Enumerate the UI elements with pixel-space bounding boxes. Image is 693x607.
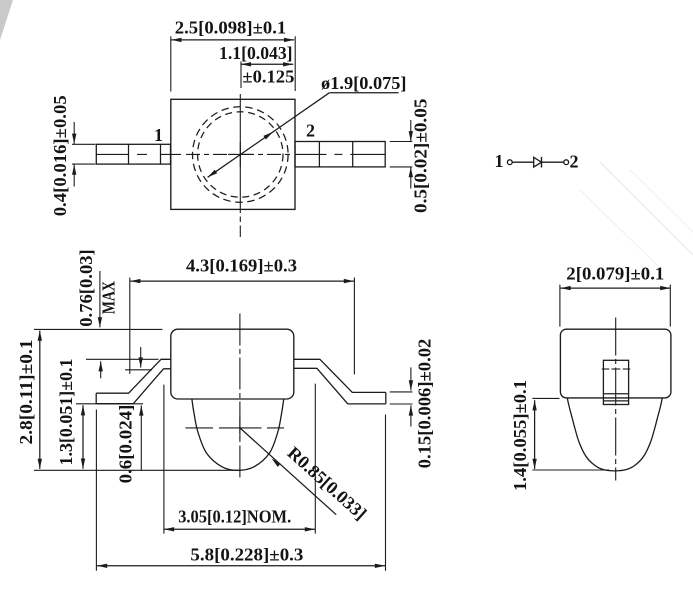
lead shoulder top extension line xyxy=(86,358,159,360)
end view: lens dome xyxy=(567,398,662,471)
side view: package body xyxy=(171,329,294,399)
svg-text:2[0.079]±0.1: 2[0.079]±0.1 xyxy=(566,264,664,284)
end view: lead slug rectangle xyxy=(603,360,628,404)
lead shoulder bottom extension line and arrow xyxy=(125,369,152,371)
svg-text:ø1.9[0.075]: ø1.9[0.075] xyxy=(321,73,407,93)
dimension 0.4 arrows xyxy=(73,122,75,144)
svg-text:1: 1 xyxy=(495,151,504,171)
dimension 0.5 arrows xyxy=(410,120,412,141)
svg-text:1.3[0.051]±0.1: 1.3[0.051]±0.1 xyxy=(56,359,76,466)
top view: lead 1 (left) outline xyxy=(96,144,170,164)
end view: package body xyxy=(560,329,671,398)
dimension 0.15 extension lines xyxy=(390,391,413,393)
svg-text:3.05[0.12]NOM.: 3.05[0.12]NOM. xyxy=(178,507,291,527)
svg-text:MAX: MAX xyxy=(98,281,118,314)
side view: lead 2 end cap xyxy=(385,392,387,404)
end view: lead slug inner lines xyxy=(603,393,628,395)
diode symbol: terminal 2 circle xyxy=(564,160,569,165)
side view: lead 1 (left gull-wing) top edge xyxy=(96,359,171,393)
side view: lead 1 end cap xyxy=(95,393,97,404)
dimension 0.5 extension lines xyxy=(390,141,413,143)
side view: lens dome xyxy=(192,399,284,470)
svg-text:±0.125: ±0.125 xyxy=(242,66,294,86)
scan artifact top-left corner xyxy=(0,0,13,40)
dimension 0.76 arrows xyxy=(99,271,101,327)
lens bottom extension line xyxy=(34,469,240,471)
diode symbol: terminal 1 circle xyxy=(507,160,512,165)
dimension 1.1 line with arrows xyxy=(241,63,293,65)
dimension 3.05 extension lines xyxy=(163,385,165,534)
svg-text:1.1[0.043]: 1.1[0.043] xyxy=(219,43,293,63)
dimension 5.8 extension lines xyxy=(95,410,97,571)
svg-text:2: 2 xyxy=(570,152,579,172)
top view: horizontal centerline xyxy=(96,153,128,155)
svg-text:4.3[0.169]±0.3: 4.3[0.169]±0.3 xyxy=(186,255,297,275)
diameter 1.9 leader arrows xyxy=(208,170,218,178)
body top extension line xyxy=(34,328,162,330)
diode symbol: triangle xyxy=(534,157,542,167)
dimension 0.6 line with arrow xyxy=(140,405,142,470)
svg-text:0.6[0.024]: 0.6[0.024] xyxy=(115,405,135,484)
top view: lead 2 bend lines xyxy=(318,142,320,167)
dimension 4.3 extension lines xyxy=(129,278,131,374)
top view: vertical centerline xyxy=(239,94,241,213)
diode symbol: cathode bar xyxy=(541,157,543,168)
svg-text:0.4[0.016]±0.05: 0.4[0.016]±0.05 xyxy=(50,95,70,216)
svg-text:2: 2 xyxy=(306,121,315,141)
svg-text:2.8[0.11]±0.1: 2.8[0.11]±0.1 xyxy=(16,340,36,445)
dimension 2.5 line with arrows xyxy=(171,39,294,41)
top view: lens center cross xyxy=(228,153,253,155)
dimension 5.8 line with arrows xyxy=(97,565,385,567)
dimension 2.8 line with arrows xyxy=(39,331,41,469)
top view: lead 2 (right) outline xyxy=(295,142,385,167)
svg-text:0.76[0.03]: 0.76[0.03] xyxy=(76,249,96,327)
diode symbol: cathode wire xyxy=(542,161,564,163)
svg-text:0.5[0.02]±0.05: 0.5[0.02]±0.05 xyxy=(411,99,431,213)
top view: lens inner dashed circle xyxy=(198,112,283,197)
dimension 3.05 line with arrows xyxy=(164,528,315,530)
top view: package body square xyxy=(171,99,295,209)
dimension 1.4 line with arrows xyxy=(534,400,536,469)
svg-text:2.5[0.098]±0.1: 2.5[0.098]±0.1 xyxy=(175,18,287,38)
radius R0.85 arrow xyxy=(272,458,281,467)
dimension 2.5 extension lines xyxy=(170,36,172,91)
dimension 0.15 arrows xyxy=(410,367,412,390)
svg-text:5.8[0.228]±0.3: 5.8[0.228]±0.3 xyxy=(190,545,303,565)
side view: lens center horizontal centerline xyxy=(186,427,214,429)
dimension 1.3 line with arrows xyxy=(82,405,84,469)
diameter 1.9 leader line xyxy=(208,93,330,178)
svg-text:1.4[0.055]±0.1: 1.4[0.055]±0.1 xyxy=(510,380,530,491)
side view: lens center vertical cross xyxy=(239,417,241,439)
diode symbol: anode wire xyxy=(512,161,533,163)
seating plane extension line xyxy=(76,403,143,405)
svg-text:1: 1 xyxy=(154,125,163,145)
dimension 0.4 extension lines xyxy=(72,143,95,145)
dimension 4.3 line with arrows xyxy=(130,280,354,282)
svg-text:0.15[0.006]±0.02: 0.15[0.006]±0.02 xyxy=(414,339,434,469)
side view: lead 2 (right gull-wing) top edge xyxy=(294,359,386,392)
top view: lead 1 bend lines xyxy=(128,144,130,164)
scan artifact faint streaks right side xyxy=(600,162,693,255)
dimension 1.1 extension line xyxy=(240,62,242,89)
dimension 1.4 extension lines xyxy=(532,397,559,399)
dimension 2 line with arrows xyxy=(561,287,671,289)
side view: lead 2 bottom edge xyxy=(294,368,386,404)
top view: lens outer dashed circle xyxy=(193,107,289,203)
end view: vertical centerline xyxy=(615,318,617,481)
end view: slug horizontal centerline xyxy=(602,368,610,370)
side view: lead 1 bottom edge xyxy=(96,369,171,404)
svg-text:R0.85[0.033]: R0.85[0.033] xyxy=(284,443,371,524)
side view: vertical centerline xyxy=(239,314,241,482)
radius R0.85[0.033] leader line xyxy=(241,428,337,514)
dimension 2 extension lines xyxy=(559,285,561,327)
